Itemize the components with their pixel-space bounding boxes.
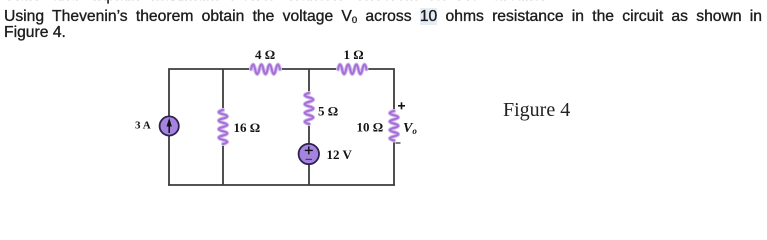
question text line 1 (cut off at top) xyxy=(4,0,545,5)
wire top middle segment xyxy=(280,68,338,70)
resistor R=4ohm halo xyxy=(251,65,280,75)
resistor R=10ohm xyxy=(390,111,398,141)
polarity plus sign for Vo xyxy=(398,102,405,109)
resistor R=4ohm xyxy=(251,65,280,75)
resistor R=1ohm halo xyxy=(338,65,367,75)
resistor R=10ohm halo xyxy=(390,111,398,141)
wire top right segment xyxy=(366,69,394,111)
circuit schematic xyxy=(0,0,767,189)
svg-text:16 Ω: 16 Ω xyxy=(234,120,261,135)
figure caption xyxy=(503,99,570,122)
wire branch 16ohm bottom xyxy=(222,144,224,185)
svg-text:5 Ω: 5 Ω xyxy=(318,104,338,119)
resistor R=5ohm halo xyxy=(305,93,313,124)
voltage source V1 12V (circle with plus/minus) xyxy=(299,144,319,164)
resistor R=16ohm halo xyxy=(219,110,227,144)
question text line 2 (justified) xyxy=(4,8,762,30)
polarity minus sign for Vo xyxy=(396,142,401,144)
svg-text:3 A: 3 A xyxy=(135,120,151,132)
wire bottom xyxy=(168,184,395,186)
resistor R=16ohm xyxy=(219,110,227,144)
svg-text:12 V: 12 V xyxy=(327,147,353,162)
question text line 3 xyxy=(4,24,66,42)
wire between 5ohm and 12V xyxy=(308,124,310,144)
svg-text:10 Ω: 10 Ω xyxy=(357,120,384,135)
svg-text:4 Ω: 4 Ω xyxy=(255,47,275,62)
wire right below 10ohm xyxy=(393,140,395,185)
wire below 12V xyxy=(308,164,310,185)
wire branch middle top xyxy=(308,69,310,93)
resistor R=5ohm xyxy=(305,93,313,124)
wire top-left segment xyxy=(169,69,251,116)
wire left below source xyxy=(168,136,170,185)
svg-text:1 Ω: 1 Ω xyxy=(344,47,364,62)
current source I1 3A (circle with up arrow) xyxy=(160,116,179,135)
resistor R=1ohm xyxy=(338,65,367,75)
wire branch 16ohm top xyxy=(222,69,224,110)
svg-text:Vo: Vo xyxy=(403,121,417,136)
